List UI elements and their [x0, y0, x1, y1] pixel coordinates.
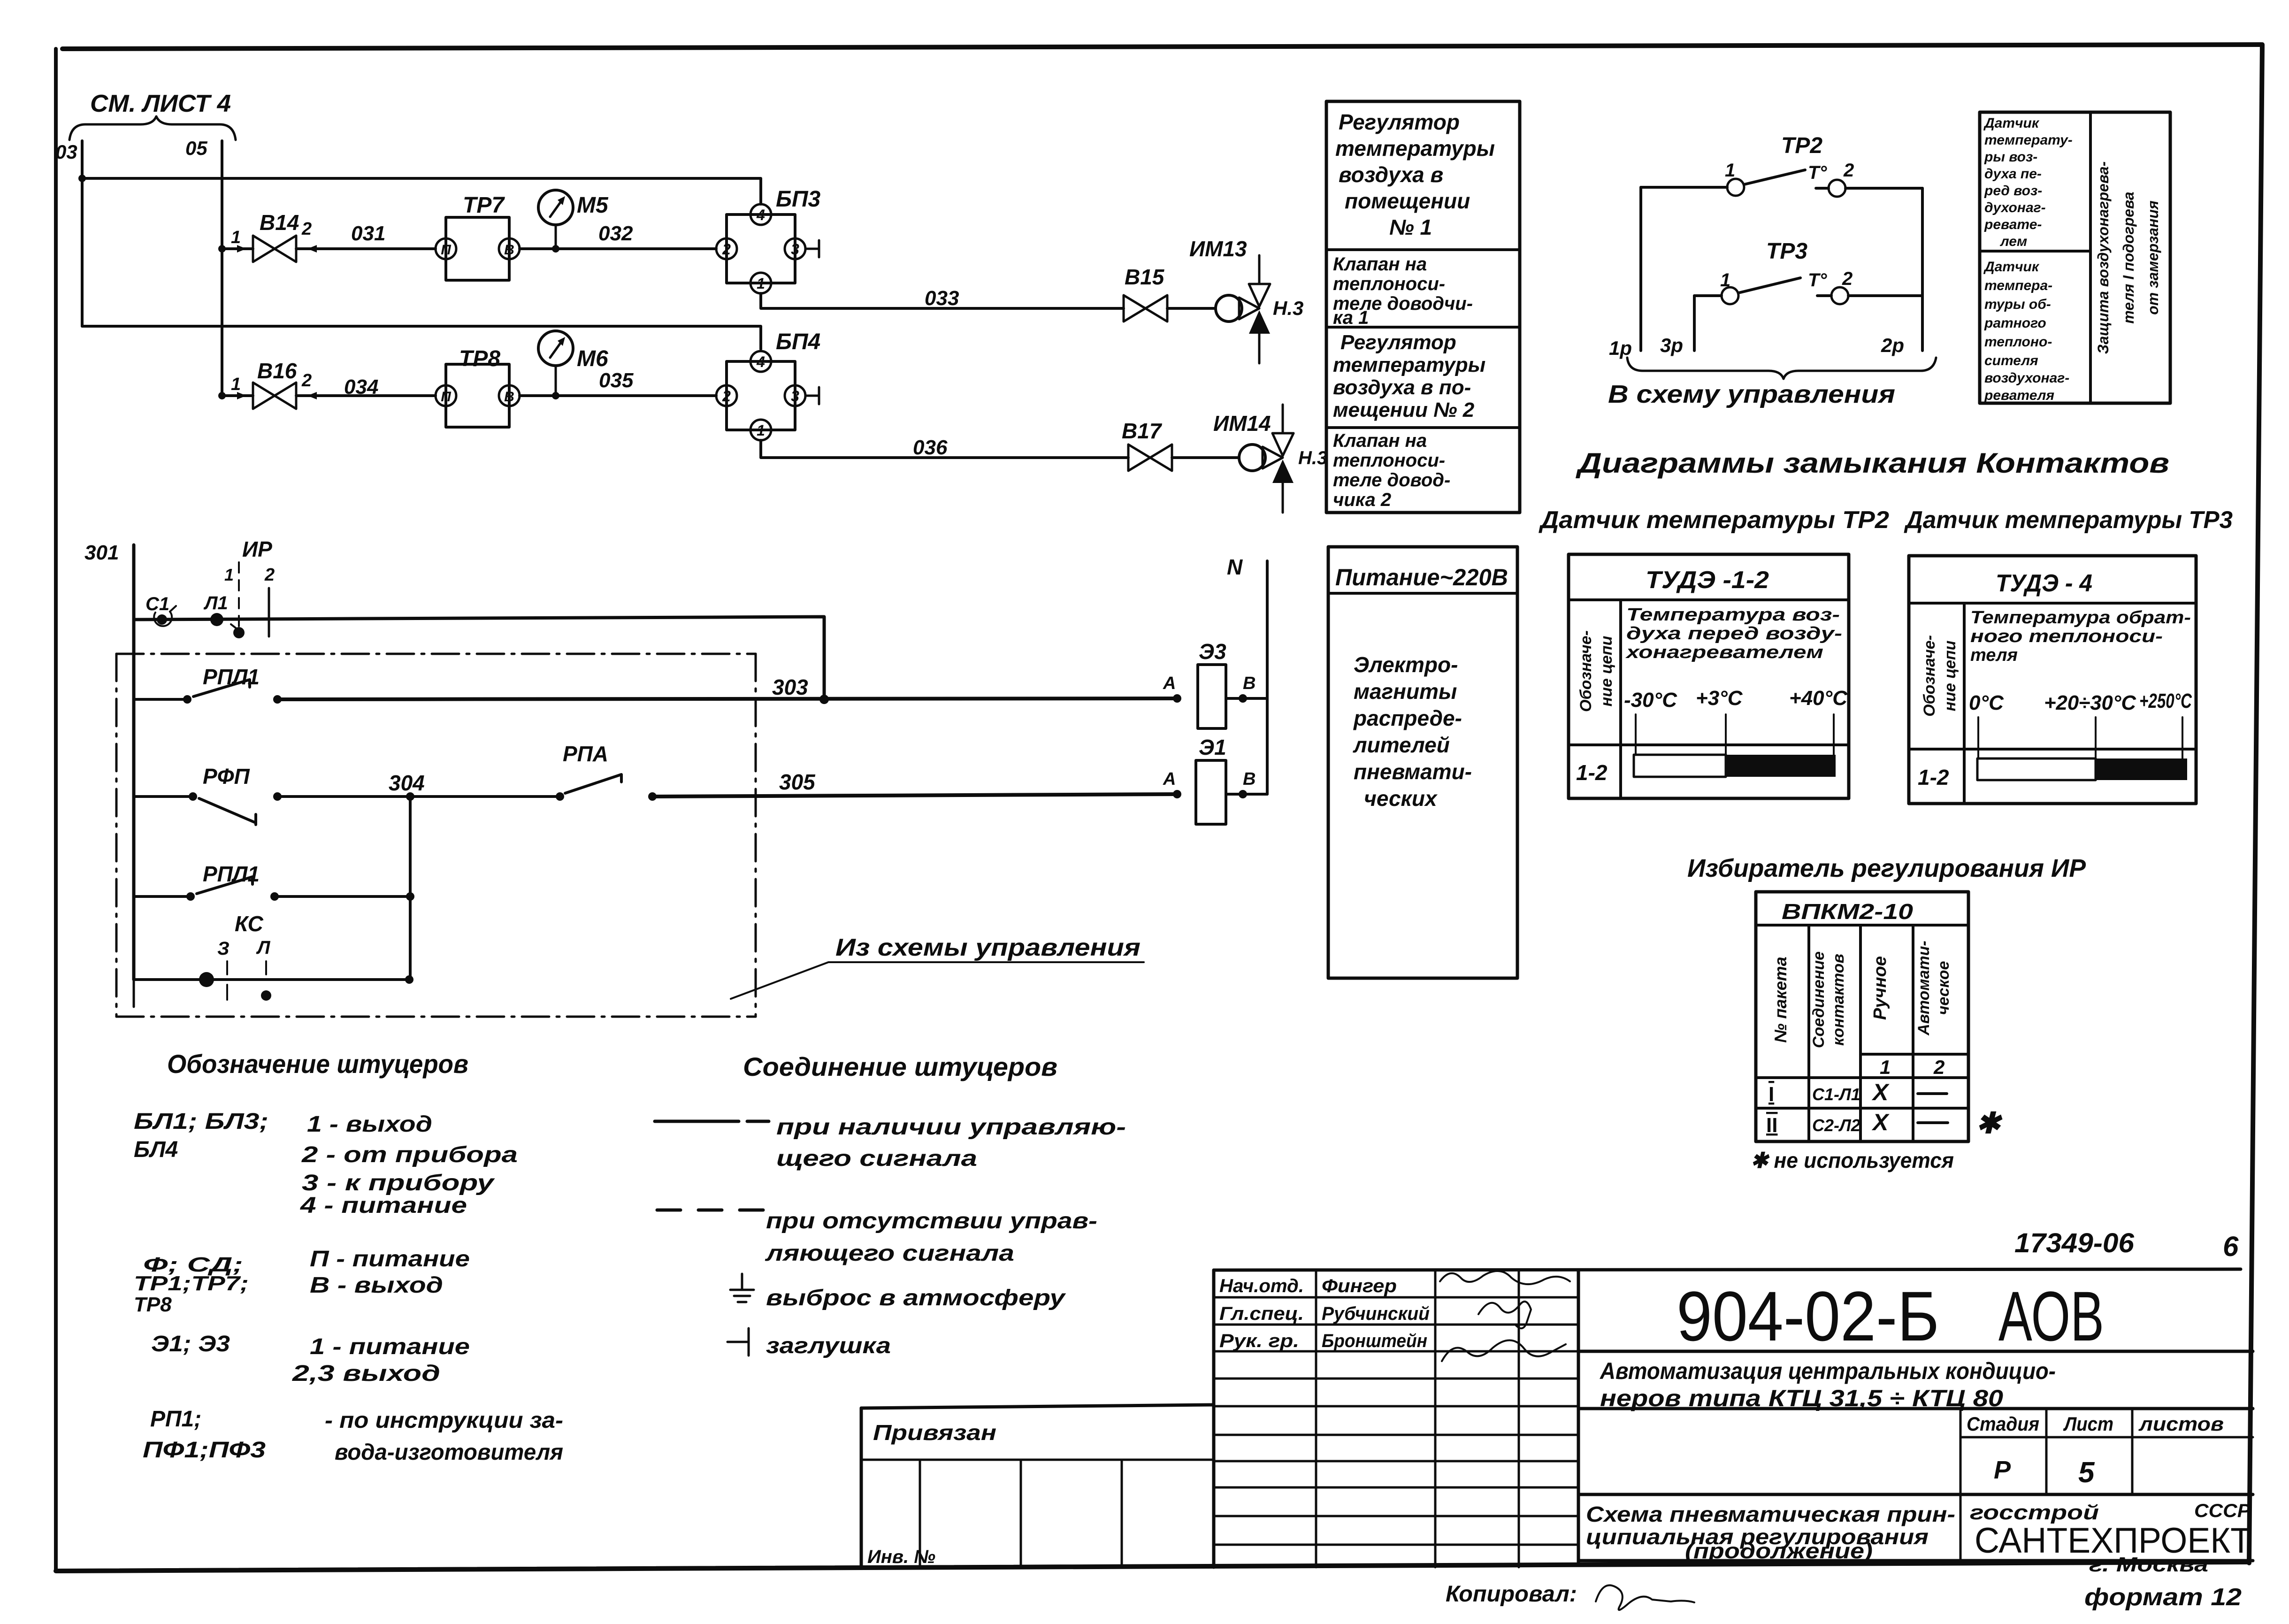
svg-text:2,3 выход: 2,3 выход: [292, 1361, 440, 1386]
svg-text:теплоно-: теплоно-: [1984, 334, 2052, 350]
svg-text:031: 031: [351, 222, 385, 245]
doc code 904-02-B AOB: [1677, 1277, 2104, 1356]
svg-text:036: 036: [913, 436, 948, 459]
svg-text:ИР: ИР: [242, 537, 272, 561]
svg-text:2: 2: [722, 388, 731, 405]
svg-text:БЛ1; БЛ3;: БЛ1; БЛ3;: [134, 1109, 268, 1134]
contact RPL1 second: [134, 862, 414, 901]
valve B17: [1122, 419, 1172, 471]
valve B14: [231, 210, 312, 262]
svg-text:пневмати-: пневмати-: [1354, 759, 1472, 784]
svg-text:туры об-: туры об-: [1984, 297, 2051, 312]
svg-text:304: 304: [389, 771, 425, 795]
wire row1 valve line: [218, 245, 253, 253]
svg-text:3: 3: [791, 388, 799, 405]
svg-text:ВПКМ2-10: ВПКМ2-10: [1782, 899, 1914, 924]
legend dashed line: [657, 1209, 1097, 1266]
svg-text:Схема пневматическая прин-: Схема пневматическая прин-: [1586, 1502, 1955, 1526]
svg-text:теля: теля: [1970, 645, 2018, 665]
table VPKM2-10: [1756, 892, 2003, 1141]
svg-text:ратного: ратного: [1984, 315, 2046, 331]
svg-text:Копировал:: Копировал:: [1446, 1582, 1577, 1607]
gauge M6: [538, 331, 608, 399]
org name cell: [1970, 1501, 2251, 1576]
wire vertical from 05: [221, 141, 223, 396]
svg-text:вода-изготовителя: вода-изготовителя: [335, 1440, 563, 1465]
sensor protection table: [1980, 112, 2170, 403]
svg-text:щего сигнала: щего сигнала: [776, 1146, 977, 1171]
svg-text:2: 2: [301, 371, 312, 391]
svg-text:1 - питание: 1 - питание: [310, 1334, 470, 1359]
svg-text:Клапан на: Клапан на: [1333, 430, 1427, 451]
svg-text:Датчик температуры ТР2: Датчик температуры ТР2: [1539, 506, 1889, 534]
svg-text:Из схемы управления: Из схемы управления: [835, 934, 1141, 961]
contact KC rung: [134, 912, 413, 1001]
svg-text:I: I: [1768, 1083, 1774, 1106]
power box 220V: [1328, 547, 1517, 978]
svg-text:СМ. ЛИСТ 4: СМ. ЛИСТ 4: [90, 90, 231, 117]
svg-text:С2-Л2: С2-Л2: [1812, 1116, 1860, 1135]
svg-text:теле довод-: теле довод-: [1333, 470, 1450, 490]
svg-text:ИМ13: ИМ13: [1189, 237, 1247, 261]
brace to control scheme: [1608, 358, 1936, 408]
node 05: [185, 137, 207, 159]
svg-text:хонагревателем: хонагревателем: [1625, 643, 1823, 662]
svg-text:Защита воздухонагрева-: Защита воздухонагрева-: [2095, 161, 2112, 354]
svg-text:Инв. №: Инв. №: [867, 1547, 935, 1567]
wire to IM13: [1167, 307, 1216, 310]
svg-text:035: 035: [599, 369, 634, 392]
sheet number 6: [2223, 1231, 2239, 1262]
svg-text:Клапан на: Клапан на: [1333, 254, 1427, 275]
svg-text:Температура воз-: Температура воз-: [1626, 605, 1840, 625]
svg-text:ние цепи: ние цепи: [1941, 640, 1959, 711]
svg-text:Рук. гр.: Рук. гр.: [1219, 1331, 1299, 1351]
svg-text:при отсутствии управ-: при отсутствии управ-: [766, 1209, 1097, 1233]
svg-text:ляющего сигнала: ляющего сигнала: [765, 1241, 1014, 1266]
svg-text:+250°С: +250°С: [2139, 689, 2192, 712]
svg-text:Р: Р: [1994, 1456, 2011, 1484]
svg-text:теля I подогрева: теля I подогрева: [2120, 192, 2137, 323]
svg-text:А: А: [1163, 769, 1176, 789]
svg-text:чика 2: чика 2: [1333, 490, 1391, 510]
valve B16: [231, 359, 312, 409]
svg-text:Н.3: Н.3: [1298, 448, 1327, 468]
svg-text:темпера-: темпера-: [1984, 278, 2052, 293]
svg-text:3: 3: [791, 241, 799, 258]
svg-text:2р: 2р: [1881, 334, 1904, 356]
wire 034: [296, 375, 436, 399]
bus wire: [132, 545, 136, 980]
svg-text:+40°С: +40°С: [1789, 687, 1848, 710]
svg-text:воздуха в по-: воздуха в по-: [1333, 376, 1471, 399]
svg-text:теплоноси-: теплоноси-: [1333, 450, 1445, 471]
svg-text:ТР2: ТР2: [1781, 133, 1822, 158]
svg-text:Н.3: Н.3: [1273, 297, 1303, 319]
svg-text:ПФ1;ПФ3: ПФ1;ПФ3: [143, 1438, 266, 1463]
svg-text:1: 1: [757, 275, 765, 292]
heading sensor TP2 TP3: [1539, 506, 2233, 534]
svg-text:М6: М6: [577, 346, 608, 371]
svg-text:Х: Х: [1871, 1079, 1890, 1105]
svg-text:+3°С: +3°С: [1696, 687, 1743, 710]
title text automation: [1599, 1358, 2056, 1411]
table TUDE-4: [1909, 556, 2196, 804]
svg-text:температу-: температу-: [1984, 132, 2073, 148]
electromagnet E1: [1163, 735, 1267, 824]
svg-text:Датчик: Датчик: [1983, 259, 2040, 275]
svg-text:ного теплоноси-: ного теплоноси-: [1970, 627, 2163, 646]
terminals 1p 3p 2p: [1609, 334, 1904, 359]
svg-text:БП4: БП4: [776, 329, 820, 354]
svg-text:ТУДЭ - 4: ТУДЭ - 4: [1996, 570, 2092, 597]
svg-text:воздухонаг-: воздухонаг-: [1984, 370, 2069, 386]
svg-text:1: 1: [231, 375, 241, 394]
svg-text:АОВ: АОВ: [1998, 1277, 2104, 1356]
wire 035: [520, 369, 716, 396]
svg-text:РПА: РПА: [563, 742, 608, 766]
svg-text:1 - выход: 1 - выход: [307, 1112, 432, 1137]
svg-text:2: 2: [264, 565, 275, 585]
svg-text:магниты: магниты: [1354, 679, 1457, 704]
svg-text:Диаграммы замыкания Контакто: Диаграммы замыкания Контактов: [1575, 447, 2169, 479]
contact RPL1 rung 303: [134, 665, 282, 704]
svg-text:помещении: помещении: [1345, 189, 1470, 213]
svg-text:Бронштейн: Бронштейн: [1322, 1331, 1427, 1351]
svg-text:В16: В16: [257, 359, 297, 383]
svg-text:303: 303: [772, 675, 808, 699]
doc number 17349-06: [2014, 1228, 2135, 1258]
wire vertical from 03: [81, 141, 84, 326]
svg-text:№ пакета: № пакета: [1771, 957, 1790, 1043]
wire 031: [296, 222, 436, 253]
wire vertical 304 branch: [409, 797, 412, 980]
contact diagram TP3: [1694, 239, 1922, 351]
svg-text:2: 2: [722, 241, 731, 258]
svg-text:4 - питание: 4 - питание: [300, 1193, 467, 1218]
title block grid: [1214, 1269, 2253, 1567]
svg-text:В - выход: В - выход: [310, 1273, 443, 1298]
gauge M5: [538, 190, 609, 253]
svg-text:Рубчинский: Рубчинский: [1322, 1303, 1430, 1324]
heading selector IR: [1687, 854, 2086, 882]
wire row2 feed: [82, 326, 761, 349]
svg-text:1: 1: [1725, 160, 1735, 181]
svg-text:П - питание: П - питание: [310, 1247, 470, 1272]
svg-text:Э3: Э3: [1199, 639, 1226, 664]
svg-text:ТР8: ТР8: [459, 346, 500, 371]
brace under note: [69, 116, 236, 140]
svg-text:З: З: [217, 938, 230, 959]
svg-text:С1-Л1: С1-Л1: [1812, 1085, 1860, 1104]
svg-text:П: П: [441, 242, 452, 258]
svg-text:301: 301: [84, 541, 119, 564]
svg-text:3р: 3р: [1660, 334, 1683, 356]
svg-text:температуры: температуры: [1333, 353, 1485, 376]
svg-text:А: А: [1163, 674, 1176, 693]
legend vent to atmosphere: [730, 1274, 1066, 1310]
svg-text:✱ не используется: ✱ не используется: [1751, 1148, 1954, 1172]
svg-text:1р: 1р: [1609, 337, 1632, 359]
legend BL1 group: [134, 1109, 518, 1218]
heading port connection: [743, 1052, 1057, 1081]
svg-text:духа перед возду-: духа перед возду-: [1626, 624, 1842, 643]
regulator description table: [1326, 101, 1520, 513]
svg-text:ред воз-: ред воз-: [1984, 183, 2042, 199]
svg-text:Ручное: Ручное: [1870, 956, 1890, 1020]
heading contact closing diagrams: [1575, 447, 2169, 479]
svg-text:2: 2: [1933, 1056, 1945, 1078]
wire rung 303: [277, 675, 1177, 704]
svg-text:Датчик: Датчик: [1983, 115, 2040, 131]
svg-text:выброс в атмосферу: выброс в атмосферу: [766, 1286, 1066, 1310]
svg-text:Соединение штуцеров: Соединение штуцеров: [743, 1052, 1057, 1081]
node 301: [84, 541, 119, 564]
svg-text:РПЛ1: РПЛ1: [203, 665, 260, 689]
svg-text:при наличии управляю-: при наличии управляю-: [776, 1115, 1126, 1140]
svg-text:Регулятор: Регулятор: [1340, 331, 1456, 354]
svg-text:заглушка: заглушка: [766, 1333, 891, 1358]
wire 032: [520, 222, 716, 249]
legend plug: [727, 1328, 891, 1358]
svg-text:В15: В15: [1125, 265, 1165, 289]
svg-text:РФП: РФП: [203, 764, 250, 789]
svg-text:П: П: [441, 389, 452, 405]
svg-text:В: В: [504, 389, 514, 405]
svg-text:В: В: [1243, 674, 1256, 693]
svg-text:ры воз-: ры воз-: [1984, 149, 2037, 165]
svg-text:05: 05: [185, 137, 207, 159]
stage sheet cells: [1967, 1413, 2224, 1489]
svg-text:КС: КС: [235, 912, 264, 936]
svg-text:№ 1: № 1: [1389, 215, 1432, 239]
svg-text:ИМ14: ИМ14: [1213, 411, 1271, 436]
svg-text:3 - к прибору: 3 - к прибору: [302, 1171, 495, 1195]
note star not used: [1751, 1148, 1954, 1172]
legend E1 E3 group: [151, 1332, 470, 1386]
svg-text:духа пе-: духа пе-: [1984, 166, 2042, 182]
svg-text:N: N: [1227, 555, 1243, 579]
svg-text:РП1;: РП1;: [150, 1407, 201, 1432]
svg-text:ка 1: ка 1: [1333, 307, 1369, 328]
svg-text:распреде-: распреде-: [1353, 706, 1462, 730]
svg-text:ТР8: ТР8: [134, 1293, 172, 1316]
svg-text:теплоноси-: теплоноси-: [1333, 274, 1445, 294]
wire rung 304-305: [277, 771, 560, 801]
svg-text:В: В: [504, 242, 514, 258]
contact RPA: [556, 742, 657, 801]
svg-text:Электро-: Электро-: [1354, 652, 1458, 677]
svg-text:сителя: сителя: [1984, 353, 2038, 368]
svg-text:ТР7: ТР7: [463, 193, 505, 218]
svg-text:БЛ4: БЛ4: [134, 1137, 178, 1162]
svg-text:Питание~220В: Питание~220В: [1335, 564, 1508, 590]
legend RP1 group: [143, 1407, 563, 1465]
title block approvals: [1219, 1276, 1430, 1351]
svg-text:ТР1;ТР7;: ТР1;ТР7;: [134, 1272, 249, 1295]
electromagnet E3: [1163, 639, 1267, 728]
svg-text:неров типа КТЦ 31,5 ÷ КТ: неров типа КТЦ 31,5 ÷ КТЦ 80: [1600, 1385, 2003, 1411]
svg-text:Л: Л: [256, 937, 271, 958]
svg-text:от замерзания: от замерзания: [2144, 200, 2161, 315]
svg-text:✱: ✱: [1976, 1107, 2003, 1140]
dash-dot boundary box: [116, 654, 756, 1017]
svg-text:М5: М5: [577, 193, 609, 218]
svg-text:Э1: Э1: [1199, 735, 1226, 759]
svg-text:1: 1: [1880, 1056, 1891, 1078]
svg-text:Обозначе-: Обозначе-: [1921, 635, 1938, 717]
wire rung 305: [652, 770, 1177, 797]
plug on BP3 port 3: [805, 240, 819, 257]
table TUDE-1-2: [1569, 554, 1849, 798]
svg-text:контактов: контактов: [1830, 954, 1847, 1046]
actuator valve IM13: [1189, 237, 1303, 363]
svg-text:СССР: СССР: [2194, 1501, 2251, 1521]
format note: [2084, 1584, 2242, 1611]
svg-text:4: 4: [756, 207, 765, 223]
svg-text:Т°: Т°: [1808, 270, 1827, 291]
svg-text:5: 5: [2078, 1456, 2095, 1489]
svg-text:4: 4: [756, 353, 765, 370]
svg-text:904-02-Б: 904-02-Б: [1677, 1277, 1939, 1356]
svg-text:мещении № 2: мещении № 2: [1333, 398, 1475, 421]
actuator valve IM14: [1213, 405, 1327, 513]
svg-text:(продолжение): (продолжение): [1685, 1539, 1873, 1563]
svg-text:Регулятор: Регулятор: [1339, 110, 1460, 134]
svg-text:03: 03: [55, 141, 77, 163]
svg-text:Лист: Лист: [2063, 1413, 2113, 1435]
svg-text:В: В: [1243, 769, 1256, 789]
wire N: [1227, 555, 1267, 794]
legend F SD TP group: [134, 1247, 470, 1316]
relay block BP4: [716, 329, 820, 440]
svg-text:Привязан: Привязан: [873, 1420, 996, 1445]
svg-text:Стадия: Стадия: [1967, 1413, 2039, 1435]
svg-text:В14: В14: [260, 210, 299, 235]
svg-text:БП3: БП3: [776, 187, 821, 212]
contact C1: [145, 594, 176, 626]
svg-text:Датчик температуры ТР3: Датчик температуры ТР3: [1904, 506, 2233, 534]
svg-text:034: 034: [344, 375, 378, 398]
regulator TP8: [436, 346, 520, 427]
svg-text:листов: листов: [2138, 1413, 2224, 1435]
svg-text:ревателя: ревателя: [1984, 388, 2054, 403]
svg-text:1-2: 1-2: [1918, 765, 1949, 789]
svg-text:Т°: Т°: [1808, 162, 1827, 183]
svg-text:2: 2: [301, 219, 312, 239]
svg-text:17349-06: 17349-06: [2014, 1228, 2135, 1258]
svg-text:-30°С: -30°С: [1624, 689, 1677, 712]
note see sheet 4: [90, 90, 231, 117]
svg-text:2 - от прибора: 2 - от прибора: [301, 1142, 518, 1167]
svg-text:2: 2: [1843, 160, 1854, 181]
svg-text:Х: Х: [1871, 1109, 1890, 1135]
heading port designation: [167, 1049, 468, 1079]
svg-text:лем: лем: [1999, 234, 2027, 249]
svg-text:Соединение: Соединение: [1810, 951, 1828, 1048]
copied by note: [1446, 1582, 1694, 1610]
svg-text:Нач.отд.: Нач.отд.: [1219, 1276, 1304, 1296]
leader from control scheme: [731, 934, 1144, 999]
svg-text:1: 1: [1720, 270, 1730, 291]
svg-text:ТУДЭ -1-2: ТУДЭ -1-2: [1646, 567, 1769, 594]
wire row1 feed: [78, 175, 761, 204]
svg-text:температуры: температуры: [1335, 136, 1495, 161]
relay block BP3: [716, 187, 821, 293]
svg-text:6: 6: [2223, 1231, 2239, 1262]
svg-text:1: 1: [231, 228, 241, 247]
contact diagram TP2: [1641, 133, 1922, 351]
svg-text:формат 12: формат 12: [2084, 1584, 2242, 1611]
wire 033: [761, 287, 1124, 310]
wire 036: [761, 436, 1128, 459]
svg-text:II: II: [1766, 1114, 1777, 1137]
svg-text:2: 2: [1842, 268, 1853, 289]
signature scribbles: [1440, 1271, 1570, 1361]
svg-text:ческое: ческое: [1935, 961, 1952, 1015]
svg-text:ТР3: ТР3: [1766, 239, 1807, 264]
wire to IM14: [1172, 456, 1239, 459]
svg-text:+20÷30°С: +20÷30°С: [2044, 691, 2136, 714]
svg-text:032: 032: [598, 222, 633, 245]
svg-text:В схему управления: В схему управления: [1608, 380, 1895, 408]
svg-text:РПЛ1: РПЛ1: [203, 862, 260, 886]
svg-text:1: 1: [757, 422, 765, 439]
selector IR: [224, 537, 275, 636]
svg-text:г. Москва: г. Москва: [2089, 1553, 2208, 1576]
svg-text:1: 1: [224, 565, 234, 584]
wire row2 valve line: [218, 392, 253, 399]
legend solid line: [655, 1115, 1126, 1171]
regulator TP7: [436, 193, 520, 280]
svg-text:ние цепи: ние цепи: [1598, 636, 1615, 706]
svg-text:ревате-: ревате-: [1984, 217, 2042, 232]
svg-text:033: 033: [925, 287, 959, 310]
svg-text:духонаг-: духонаг-: [1984, 200, 2046, 215]
valve B15: [1124, 265, 1167, 322]
scheme name text: [1586, 1502, 1955, 1563]
svg-text:Фингер: Фингер: [1322, 1276, 1397, 1296]
svg-text:лителей: лителей: [1353, 733, 1450, 757]
node 03: [55, 141, 77, 163]
svg-text:Л1: Л1: [203, 593, 228, 613]
svg-text:0°С: 0°С: [1969, 691, 2004, 714]
lamp contact L1: [203, 593, 245, 638]
svg-text:воздуха в: воздуха в: [1339, 162, 1443, 187]
attachment box: [861, 1405, 1214, 1568]
svg-text:Температура обрат-: Температура обрат-: [1970, 608, 2191, 628]
svg-text:Гл.спец.: Гл.спец.: [1219, 1303, 1304, 1324]
svg-text:1-2: 1-2: [1576, 760, 1608, 785]
top rung wire: [134, 617, 824, 699]
svg-text:Обозначе-: Обозначе-: [1577, 630, 1595, 712]
svg-text:ческих: ческих: [1364, 786, 1438, 811]
svg-text:В17: В17: [1122, 419, 1163, 443]
svg-text:Автомати-: Автомати-: [1915, 941, 1933, 1036]
plug on BP4 port 3: [805, 387, 819, 404]
svg-text:305: 305: [779, 770, 816, 794]
svg-text:Автоматизация центральных конд: Автоматизация центральных кондицио-: [1599, 1358, 2056, 1384]
svg-text:- по инструкции за-: - по инструкции за-: [325, 1408, 563, 1433]
contact RFP: [134, 764, 282, 825]
svg-text:Избиратель регулирования ИР: Избиратель регулирования ИР: [1687, 854, 2086, 882]
svg-text:Э1; Э3: Э1; Э3: [151, 1332, 230, 1356]
svg-text:Обозначение штуцеров: Обозначение штуцеров: [167, 1049, 468, 1079]
svg-text:С1: С1: [145, 594, 169, 614]
